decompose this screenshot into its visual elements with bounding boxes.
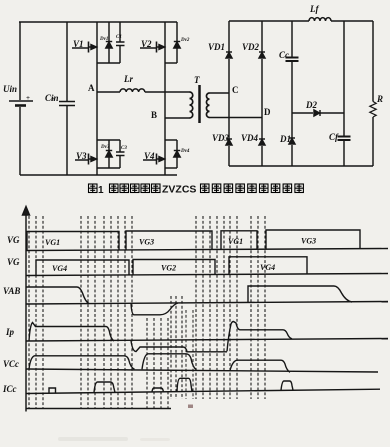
svg-text:T: T xyxy=(194,75,200,85)
svg-text:+: + xyxy=(26,94,30,102)
transistor V4 xyxy=(164,116,166,175)
wire Cc column xyxy=(291,21,293,166)
waveform row labels xyxy=(2,235,20,394)
svg-text:VG: VG xyxy=(7,235,20,245)
trace VG3 pulse b xyxy=(266,230,360,249)
diode Dv4 (V4 body diode) xyxy=(176,140,178,168)
svg-text:C3: C3 xyxy=(121,146,127,151)
axis arrow xyxy=(23,207,30,216)
wire V1 cell bottom xyxy=(97,62,120,64)
svg-text:VD3: VD3 xyxy=(212,133,230,143)
bottom border line xyxy=(26,408,171,410)
svg-text:V1: V1 xyxy=(73,39,84,49)
inductor Lr xyxy=(120,89,145,92)
svg-text:+: + xyxy=(51,95,55,103)
capacitor Cin xyxy=(59,102,75,106)
diode VD4 xyxy=(259,140,265,146)
diode VD2 xyxy=(259,53,265,59)
trace VAB positive pulse b xyxy=(248,286,352,303)
capacitor Cc xyxy=(286,58,299,62)
svg-text:Cf: Cf xyxy=(329,132,339,142)
baseline VCc xyxy=(26,369,378,372)
diode Dv2 (V2 body diode) xyxy=(176,22,178,63)
svg-text:Ip: Ip xyxy=(5,327,15,337)
battery Uin xyxy=(9,100,33,102)
wire Lr to transformer xyxy=(145,91,190,93)
diode Dv3 (V3 body diode) xyxy=(108,140,110,168)
wire output bottom rail xyxy=(229,165,373,167)
svg-text:VG: VG xyxy=(7,257,20,267)
waveform axis vertical xyxy=(25,214,27,412)
svg-text:V4: V4 xyxy=(144,151,155,161)
svg-text:V2: V2 xyxy=(141,39,152,49)
svg-text:VD2: VD2 xyxy=(242,42,260,52)
caption 图1 无源钳位的ZVZCS全桥变换器拓扑结构 xyxy=(89,184,304,197)
svg-text:D: D xyxy=(264,107,271,117)
trace VCc trapezoid a xyxy=(29,356,135,370)
baseline row VG4/VG2 xyxy=(26,274,388,276)
node A wire xyxy=(97,91,120,93)
wire V3 cell top xyxy=(97,139,120,141)
faint bottom smudge xyxy=(58,437,170,441)
wire D2 branch xyxy=(292,112,344,114)
trace ICc pulse 4 xyxy=(281,381,293,390)
svg-text:D2: D2 xyxy=(305,100,317,110)
transformer T secondary xyxy=(206,93,209,117)
svg-text:D1: D1 xyxy=(279,134,291,144)
svg-text:Dv1: Dv1 xyxy=(99,37,108,42)
node D wire xyxy=(210,117,263,119)
svg-text:VD1: VD1 xyxy=(208,42,225,52)
svg-text:Uin: Uin xyxy=(3,84,17,94)
wire VD2/VD4 column xyxy=(261,21,263,166)
baseline Ip xyxy=(26,339,388,342)
trace ICc pulse 3 xyxy=(177,378,192,391)
wire output top rail xyxy=(229,20,373,22)
wire load column xyxy=(372,21,374,166)
diode VD1 xyxy=(226,53,232,59)
scan artifact line-end tick xyxy=(188,405,193,409)
svg-text:V3: V3 xyxy=(76,151,87,161)
wire Cin column xyxy=(66,22,68,175)
trace ICc pulse 0 xyxy=(49,388,56,393)
svg-text:VG2: VG2 xyxy=(161,264,176,273)
WAVEFORM PANEL xyxy=(23,207,389,412)
wire V2 cell bottom xyxy=(165,62,177,64)
svg-text:VCc: VCc xyxy=(3,359,19,369)
trace VG2 pulse a xyxy=(133,260,215,275)
baseline row VG1/VG3 xyxy=(26,249,388,251)
wire battery column xyxy=(19,22,21,175)
trace Ip positive hump b xyxy=(227,322,292,352)
capacitor C3 xyxy=(119,140,121,168)
svg-text:VG3: VG3 xyxy=(139,238,154,247)
wire bottom rail left bridge xyxy=(20,174,177,176)
svg-text:Dv2: Dv2 xyxy=(180,38,190,43)
svg-text:VG1: VG1 xyxy=(45,238,60,247)
svg-text:VG4: VG4 xyxy=(52,264,67,273)
diode D2 xyxy=(314,110,320,116)
wire VD1/VD3 column xyxy=(228,21,230,166)
trace Ip positive hump a xyxy=(29,323,114,342)
trace VAB negative dip xyxy=(131,303,178,315)
svg-text:VG3: VG3 xyxy=(301,237,316,246)
svg-text:R: R xyxy=(376,94,383,104)
svg-text:C: C xyxy=(232,85,239,95)
diode Dv1 (V1 body diode) xyxy=(108,22,110,63)
baseline ICc xyxy=(26,389,380,393)
transformer T primary xyxy=(190,92,193,118)
schematic text labels xyxy=(3,4,383,161)
svg-text:ZVZCS: ZVZCS xyxy=(162,184,196,196)
svg-text:VG1: VG1 xyxy=(228,237,243,246)
waveform pulse labels xyxy=(45,237,316,274)
transformer T core xyxy=(198,85,201,123)
trace ICc pulse 2 xyxy=(152,388,164,392)
trace VG1 pulse a xyxy=(27,232,119,251)
inductor Lf xyxy=(309,18,331,21)
svg-text:A: A xyxy=(88,83,95,93)
node B wire xyxy=(165,117,190,119)
capacitor Cf xyxy=(338,137,351,141)
svg-text:VG4: VG4 xyxy=(260,263,275,272)
wire V4 cell top xyxy=(165,139,177,141)
wire V3 cell bottom xyxy=(97,167,120,169)
trace VG4 pulse b xyxy=(229,257,307,275)
wire top rail left bridge xyxy=(19,21,177,23)
trace Ip negative half xyxy=(131,341,227,352)
svg-text:Lr: Lr xyxy=(123,74,133,84)
svg-text:1: 1 xyxy=(98,185,104,196)
baseline VAB xyxy=(26,302,388,305)
svg-text:ICc: ICc xyxy=(2,384,17,394)
diode D1 xyxy=(289,139,295,145)
trace VG1 pulse b xyxy=(221,231,257,250)
trace ICc pulse 1 xyxy=(94,382,115,393)
transistor V1 xyxy=(96,22,98,92)
svg-text:Dv4: Dv4 xyxy=(180,149,190,154)
svg-text:VD4: VD4 xyxy=(241,133,259,143)
transistor V2 xyxy=(164,22,166,116)
trace VG3 pulse a xyxy=(126,231,212,250)
node C wire xyxy=(210,92,230,94)
wire V4 cell bottom xyxy=(165,167,177,169)
svg-text:Dv3: Dv3 xyxy=(100,145,110,150)
trace VG4 pulse a xyxy=(36,260,129,275)
trace VCc trapezoid c xyxy=(230,360,290,372)
capacitor C1 xyxy=(119,22,121,63)
trace VCc trapezoid b xyxy=(142,354,197,370)
timing dashed lines xyxy=(29,216,265,408)
transistor V3 xyxy=(96,92,98,175)
diode VD3 xyxy=(226,140,232,146)
trace VAB positive pulse a xyxy=(26,287,89,304)
svg-text:Lf: Lf xyxy=(309,4,319,14)
svg-text:B: B xyxy=(151,110,157,120)
resistor R xyxy=(370,102,376,118)
svg-text:Cc: Cc xyxy=(279,50,289,60)
wire Cf column xyxy=(343,21,345,166)
svg-text:VAB: VAB xyxy=(3,286,20,296)
svg-text:C1: C1 xyxy=(116,35,122,40)
